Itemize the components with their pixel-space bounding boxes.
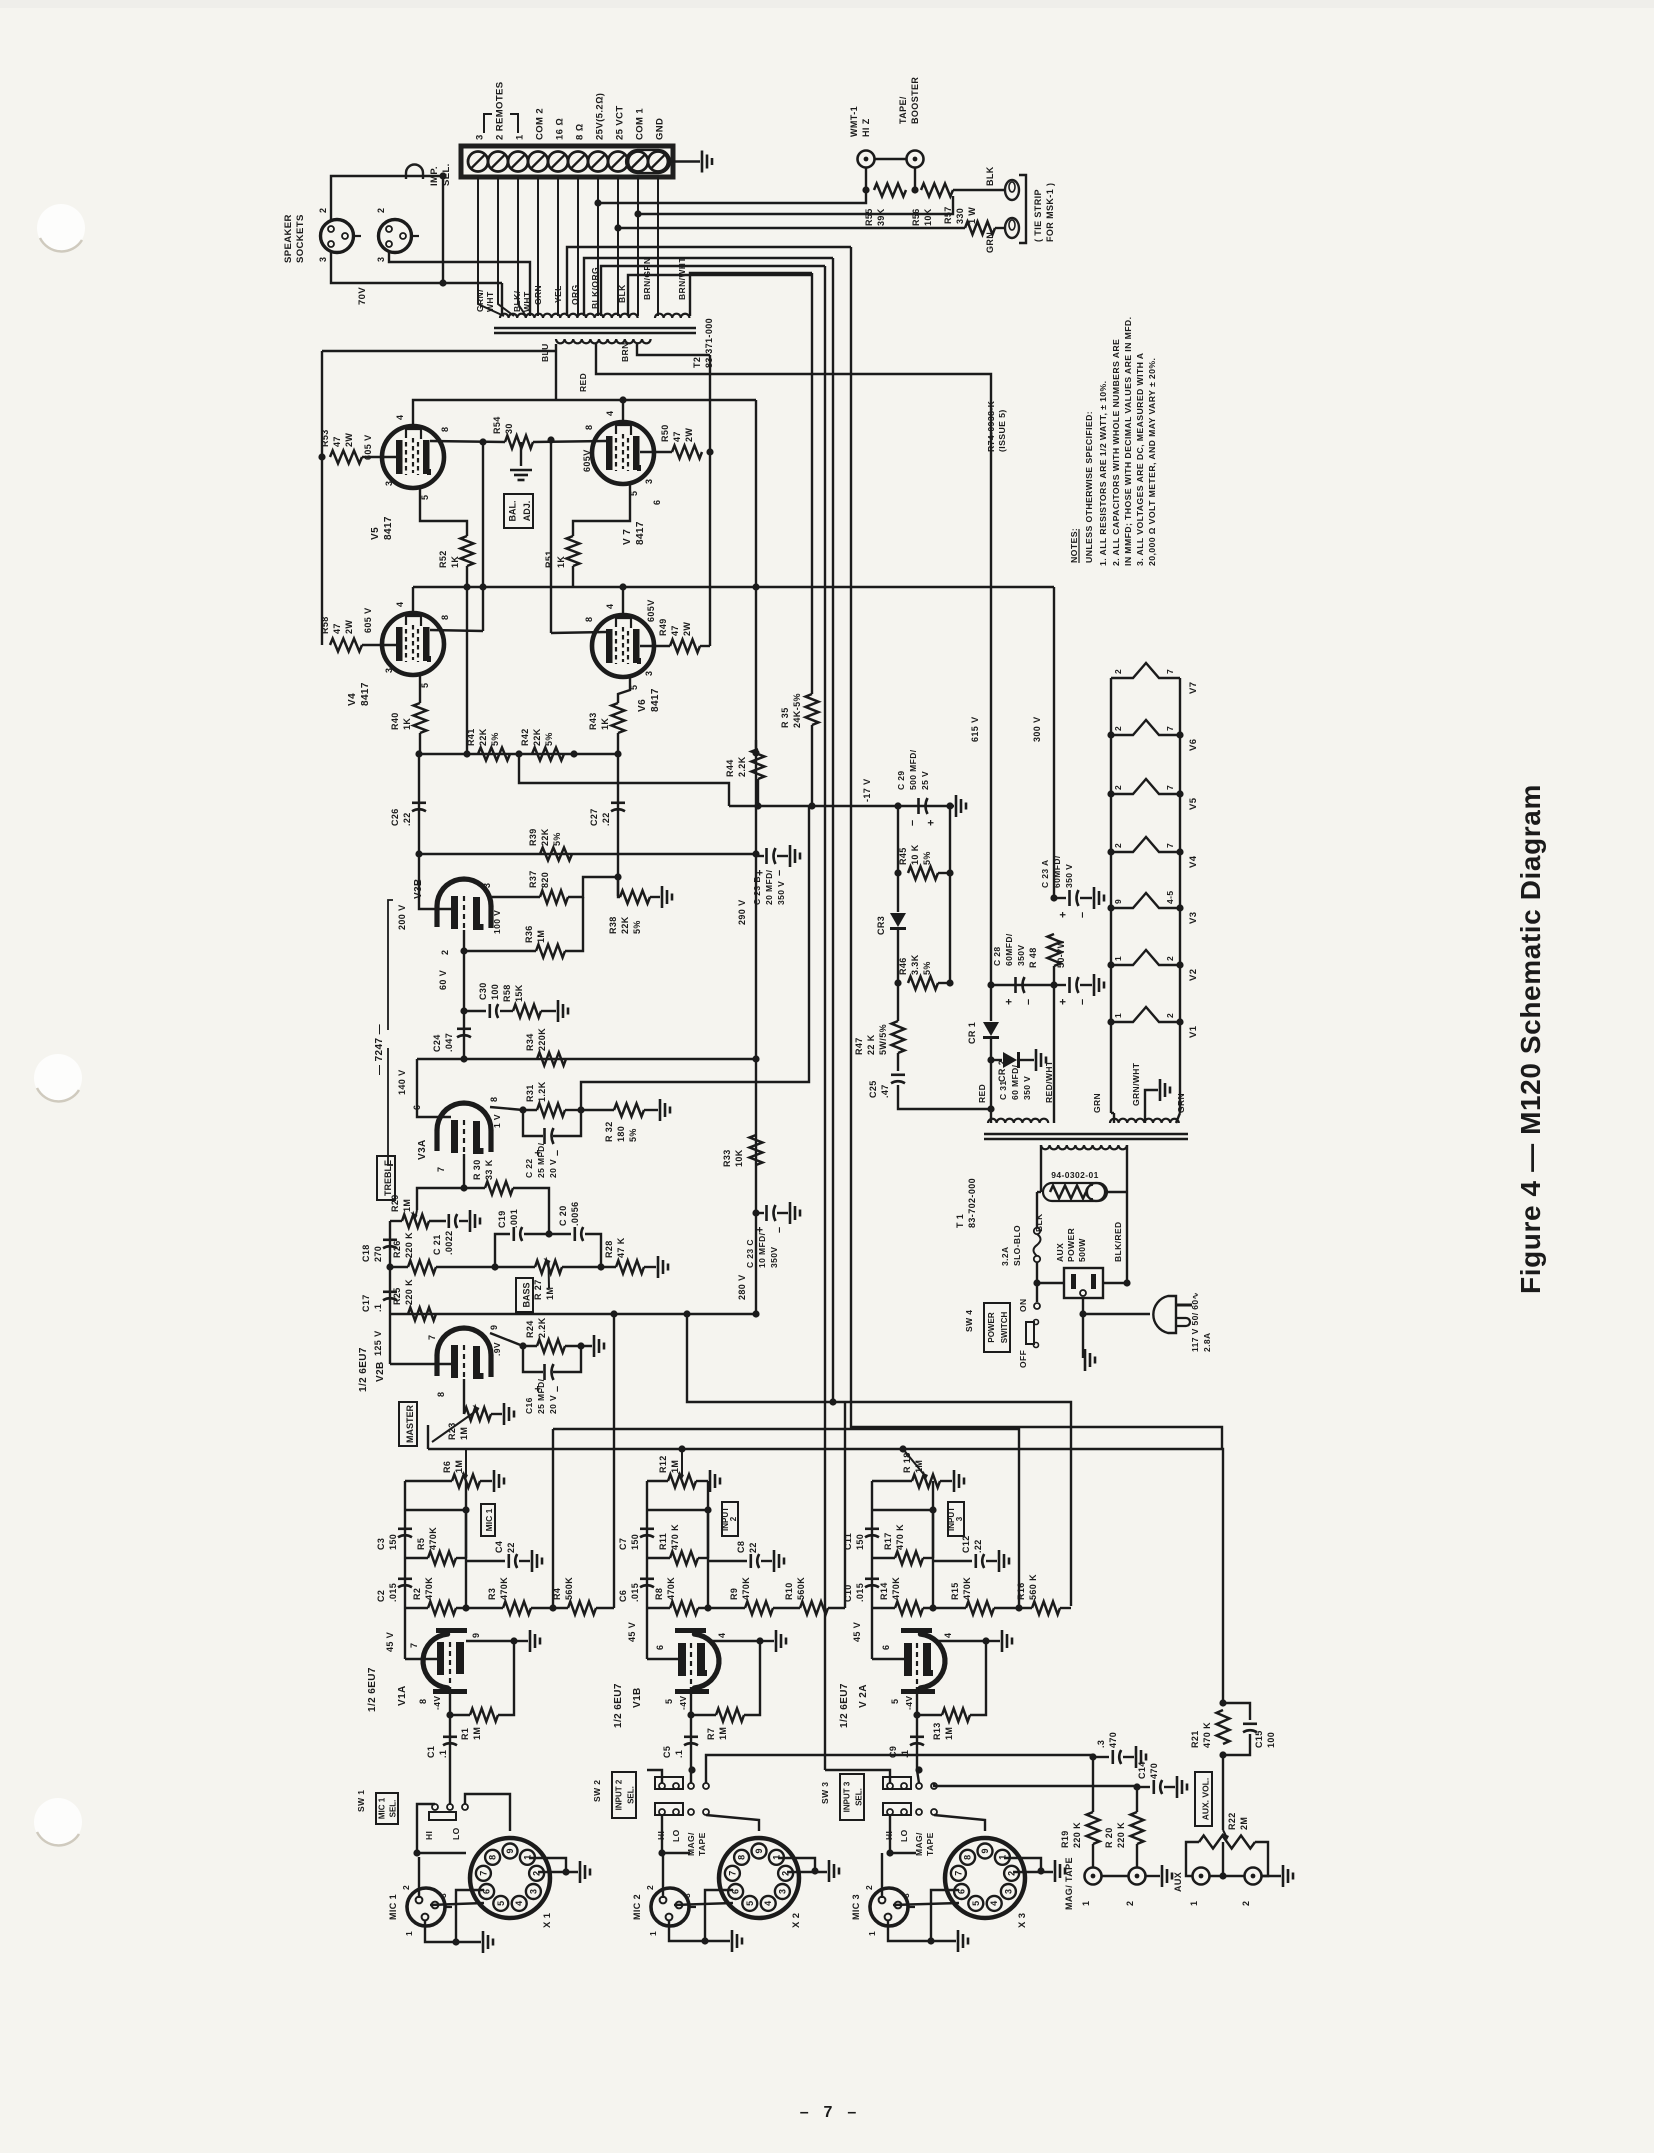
junction SW2/MIC2 <box>658 1849 665 1856</box>
svg-text:4: 4 <box>943 1633 953 1638</box>
svg-text:3: 3 <box>318 257 328 262</box>
label X1 <box>542 1912 553 1928</box>
svg-text:22: 22 <box>748 1542 758 1553</box>
svg-text:7: 7 <box>436 1167 446 1172</box>
svg-text:25 MFD/: 25 MFD/ <box>536 1378 546 1414</box>
svg-text:1M: 1M <box>472 1727 482 1740</box>
label ORG (T2) <box>570 284 580 305</box>
svg-text:.22: .22 <box>402 812 412 826</box>
svg-text:–: – <box>907 819 919 826</box>
svg-text:15K: 15K <box>514 984 524 1002</box>
svg-text:BOOSTER: BOOSTER <box>910 77 920 124</box>
right vertical x=710 (R50/R49) <box>709 355 711 646</box>
wire tap YEL to bundle <box>567 247 851 316</box>
wire MAG jack2 ground <box>1146 1875 1160 1877</box>
label C19 .001 <box>497 1209 519 1228</box>
resistor R42 22K 5% <box>532 748 564 761</box>
wire C23B stub <box>756 855 764 857</box>
label T2 83-371-000 <box>692 318 714 368</box>
label MIC 1 <box>388 1894 398 1920</box>
label BLU <box>540 343 550 362</box>
svg-text:1M: 1M <box>402 1199 412 1212</box>
svg-text:IN MMFD; THOSE WITH DECIMAL: IN MMFD; THOSE WITH DECIMAL VALUES ARE I… <box>1123 317 1133 566</box>
svg-text:140 V: 140 V <box>397 1069 407 1095</box>
ground symbol (V1B pin4) <box>776 1630 786 1652</box>
svg-text:1M: 1M <box>670 1460 680 1473</box>
svg-text:100 V: 100 V <box>492 910 502 934</box>
svg-text:615 V: 615 V <box>970 716 980 742</box>
wire V6 plate up <box>622 587 624 619</box>
wire CR2 stub <box>991 1059 1002 1061</box>
svg-text:RED/WHT: RED/WHT <box>1044 1060 1054 1103</box>
ch2 cathode rail y=1608 <box>647 1607 670 1609</box>
svg-text:ADJ.: ADJ. <box>522 501 532 522</box>
svg-text:R56: R56 <box>911 208 921 226</box>
svg-text:8: 8 <box>489 1097 499 1102</box>
wire V2A pin5 down <box>916 1687 918 1715</box>
wire MIC1 pin3 to X1 pin5 <box>430 1903 484 1905</box>
resistor R44 2.2K <box>752 749 765 779</box>
capacitor C23A 60MFD/350V <box>1058 890 1089 918</box>
junction rail1314 x614 <box>610 1310 617 1317</box>
svg-text:200 V: 200 V <box>397 904 407 930</box>
junction R35 bottom <box>808 802 815 809</box>
svg-text:10K: 10K <box>923 208 933 226</box>
junction rail1314 x687 <box>683 1310 690 1317</box>
wire R3-R4 <box>531 1607 568 1609</box>
wire R22 wiper down <box>1222 1842 1224 1876</box>
resistor R41 22K 5% <box>478 748 510 761</box>
wire MIC1 pin2 up <box>418 1857 420 1898</box>
svg-text:50-7W: 50-7W <box>1056 939 1066 968</box>
svg-text:-4V: -4V <box>432 1696 442 1710</box>
svg-text:X 2: X 2 <box>791 1913 802 1928</box>
svg-text:NOTES:: NOTES: <box>1069 528 1079 563</box>
resistor R45 10K 5% <box>908 867 938 880</box>
svg-text:GRN: GRN <box>985 232 995 253</box>
label BLK (tie strip) <box>985 166 995 186</box>
wire lamp left / fuse column <box>1037 1191 1041 1193</box>
label 45 V (V2A) <box>852 1622 862 1642</box>
svg-text:24K-5%: 24K-5% <box>792 693 802 728</box>
ground symbol (MAG jacks) <box>1162 1865 1172 1887</box>
svg-text:C26: C26 <box>390 808 400 826</box>
svg-text:7: 7 <box>953 1871 963 1876</box>
svg-text:180: 180 <box>616 1126 626 1142</box>
svg-text:C 28: C 28 <box>992 946 1002 966</box>
pilot lamp assembly 94-0302-01 <box>1043 1183 1107 1201</box>
transformer T1 heater secondary <box>1110 1119 1179 1123</box>
resistor R19 220K <box>1087 1812 1100 1844</box>
junction rail1449 ch3 <box>899 1445 906 1452</box>
resistor R21 470K <box>1217 1710 1230 1744</box>
svg-text:R9: R9 <box>729 1588 739 1600</box>
label LO (SW2) <box>671 1829 681 1842</box>
wire speaker socket1 pin3 down-right (70V) <box>331 252 502 283</box>
junction R46 right <box>946 979 953 986</box>
svg-text:1: 1 <box>404 1931 414 1936</box>
svg-text:BLK: BLK <box>985 166 995 186</box>
label R38 22K 5% <box>608 916 642 934</box>
svg-text:8: 8 <box>584 425 594 430</box>
label C27 .22 <box>589 808 611 826</box>
rail y=1429 <box>553 1429 1019 1606</box>
wire C9 to SW3 <box>917 1768 919 1783</box>
label C24 .047 <box>432 1033 454 1052</box>
wire tap BLK/ORG to bundle <box>601 266 825 316</box>
svg-text:.3: .3 <box>1096 1740 1106 1748</box>
label V3B <box>413 878 424 899</box>
label R35 24K-5% <box>780 693 802 728</box>
label 125 V <box>373 1330 383 1356</box>
svg-text:3: 3 <box>376 257 386 262</box>
label R5 470K <box>416 1527 438 1550</box>
wire R53 to V5 pin3 <box>362 456 397 458</box>
pin labels MIC3 <box>864 1885 911 1936</box>
svg-text:3: 3 <box>955 1516 964 1521</box>
label 615 V <box>970 716 980 742</box>
wire R19 to jack <box>1092 1844 1094 1867</box>
label V4 8417 <box>347 682 371 706</box>
label HI (SW1) <box>424 1831 434 1840</box>
mixer rail y=1314 <box>390 1313 756 1315</box>
wire speaker socket1 pin2 to IMP SEL <box>331 176 443 221</box>
label C26 .22 <box>390 808 412 826</box>
svg-text:V3A: V3A <box>417 1139 428 1160</box>
svg-text:V5: V5 <box>1188 797 1199 810</box>
label C7 150 <box>618 1534 640 1550</box>
resistor R39 22K 5% <box>540 848 572 861</box>
svg-text:COM 1: COM 1 <box>635 108 646 140</box>
resistor R30 33K <box>485 1182 513 1195</box>
svg-text:R42: R42 <box>520 728 530 746</box>
capacitor C29 500MFD/25V <box>907 798 938 826</box>
svg-text:C18: C18 <box>361 1244 371 1262</box>
svg-text:350 V: 350 V <box>1064 864 1074 888</box>
label R1 1M <box>460 1727 482 1740</box>
wire R6 to ground <box>480 1480 492 1482</box>
svg-text:C 23 A: C 23 A <box>1040 859 1050 888</box>
wire C30 to R58b <box>500 1010 513 1012</box>
label 290 V <box>737 899 747 925</box>
svg-text:4: 4 <box>605 604 615 609</box>
wire 70V to T2 GRN/WHT <box>501 283 503 316</box>
resistor R40 1K <box>414 703 427 733</box>
resistor R9 470K <box>745 1602 773 1615</box>
capacitor C23C 10MFD/350V <box>755 1205 786 1233</box>
svg-text:6: 6 <box>652 500 662 505</box>
transformer T2 extra winding BRN/GRN <box>655 314 689 318</box>
svg-text:60 MFD/: 60 MFD/ <box>1010 1064 1020 1100</box>
svg-text:R58: R58 <box>502 984 512 1002</box>
svg-text:2W: 2W <box>682 622 692 636</box>
signal line x=614 down <box>613 1314 615 1608</box>
wire R29 to C21 <box>429 1220 446 1222</box>
svg-text:22 K: 22 K <box>866 1034 876 1055</box>
speaker socket 2 <box>379 220 420 253</box>
svg-text:2: 2 <box>1125 1901 1135 1906</box>
svg-text:5%: 5% <box>552 832 562 846</box>
transformer T1 primary <box>1041 1145 1127 1149</box>
AUX POWER outlet <box>1064 1268 1103 1298</box>
label V1A <box>397 1685 408 1706</box>
label (TIE STRIP FOR MSK-1) <box>1033 183 1055 242</box>
capacitor C25 .47 <box>891 1075 905 1083</box>
svg-text:1 V: 1 V <box>492 1114 502 1128</box>
svg-text:1K: 1K <box>450 556 460 568</box>
label R7 1M <box>706 1727 728 1740</box>
svg-text:.1: .1 <box>900 1750 910 1758</box>
junction CR2 node <box>987 1056 994 1063</box>
label C5 .1 <box>662 1746 684 1758</box>
wire R45 right <box>938 872 950 874</box>
wire R20 to jack <box>1136 1844 1138 1867</box>
heater pin labels V2 <box>1113 956 1175 961</box>
junction C28/C31 <box>1050 981 1057 988</box>
svg-text:22K: 22K <box>532 728 542 746</box>
label R48 50-7W <box>1028 939 1066 968</box>
speaker socket 1 <box>321 220 362 253</box>
wire rail1059 to V3A grid <box>417 1059 451 1117</box>
ground symbol (C8) <box>774 1550 784 1572</box>
wire V3B plate (pin3) to R37 <box>492 896 540 898</box>
connector MIC 1 <box>407 1888 452 1926</box>
svg-text:7: 7 <box>727 1871 737 1876</box>
svg-text:R47: R47 <box>854 1037 864 1055</box>
svg-text:POWER: POWER <box>1066 1228 1076 1262</box>
resistor R53 47 2W <box>330 451 362 464</box>
wire R30 right down <box>513 1188 549 1234</box>
pin labels V4 <box>384 602 450 688</box>
label R15 470K <box>950 1577 972 1600</box>
svg-text:R58: R58 <box>320 616 330 634</box>
svg-text:R33: R33 <box>722 1149 732 1167</box>
svg-text:470 K: 470 K <box>670 1524 680 1550</box>
svg-text:22K: 22K <box>540 828 550 846</box>
label C12 .22 <box>961 1535 983 1553</box>
label 60 V <box>438 970 448 990</box>
wire TAPE jack stem <box>914 168 916 190</box>
svg-text:R41: R41 <box>466 728 476 746</box>
IMP SEL jack <box>406 165 423 180</box>
svg-text:7: 7 <box>1165 726 1175 731</box>
wire V2B pin9 to R24 <box>490 1333 537 1346</box>
svg-text:2: 2 <box>1241 1901 1251 1906</box>
label box INPUT 2 SEL <box>612 1772 636 1818</box>
label C11 150 <box>843 1533 865 1550</box>
capacitor C6 .015 <box>640 1579 654 1587</box>
svg-text:R51: R51 <box>544 550 554 568</box>
wire R13 left stub <box>917 1714 942 1716</box>
wire AUX jacks link <box>1210 1875 1244 1877</box>
ground symbol (V1A pin9) <box>530 1630 540 1652</box>
svg-text:–: – <box>1023 998 1035 1005</box>
svg-text:5: 5 <box>745 1901 755 1906</box>
label R19 220 K <box>1060 1822 1082 1848</box>
svg-text:470K: 470K <box>428 1527 438 1550</box>
wire MIC2 pin3 to X2 pin5 <box>674 1903 733 1905</box>
junction R11 top <box>704 1506 711 1513</box>
label 100V (V3B) <box>492 910 502 934</box>
pin labels MIC1 <box>401 1885 448 1936</box>
bias ladder right x=950 <box>949 806 951 983</box>
channel2 grid column x=647 <box>646 1481 648 1659</box>
svg-text:R8: R8 <box>654 1588 664 1600</box>
wire C12 ground stub <box>986 1560 997 1562</box>
svg-text:BAL.: BAL. <box>507 501 517 522</box>
label R41 22K 5% <box>466 728 500 746</box>
wire R7 right up <box>744 1641 760 1715</box>
label C1 .1 <box>426 1746 448 1758</box>
label C13 470 <box>1096 1732 1118 1748</box>
driver plate rail y=854 <box>419 853 756 855</box>
svg-text:1K: 1K <box>600 718 610 730</box>
label T1 83-702-000 <box>955 1178 977 1228</box>
wire SW1 LO to X1 pin9 <box>465 1794 510 1831</box>
junction SW1/MIC1 <box>413 1849 420 1856</box>
label R2 470K <box>412 1577 434 1600</box>
svg-text:COM 2: COM 2 <box>535 108 546 140</box>
svg-text:2: 2 <box>864 1885 874 1890</box>
wire X3 pin1/2 to ground <box>1004 1858 1041 1871</box>
ground symbol (MIC3) <box>958 1930 968 1952</box>
capacitor C20 .0056 <box>575 1227 583 1241</box>
socket X1 <box>470 1838 550 1918</box>
label SW 4 <box>964 1310 974 1332</box>
tie strip lug 1 <box>1005 180 1019 200</box>
pin labels V1A <box>409 1633 481 1704</box>
wire C21 ground stub <box>459 1220 468 1222</box>
label R43 1K <box>588 712 610 730</box>
label R46 3.3K 5% <box>898 954 932 975</box>
svg-text:C9: C9 <box>888 1746 898 1758</box>
ground symbol (AUX jacks) <box>1283 1865 1293 1887</box>
heater V5 <box>1111 779 1180 794</box>
wire outlet left feed <box>1037 1282 1064 1284</box>
junction -17V/R45 <box>894 802 901 809</box>
heater pin labels V1 <box>1113 1013 1175 1018</box>
ch2 coupling column x=691 <box>690 1715 692 1768</box>
ground symbol (R58b) <box>558 1000 568 1022</box>
svg-text:.015: .015 <box>388 1583 398 1602</box>
svg-text:.22: .22 <box>973 1539 983 1553</box>
wire R32 to ground <box>644 1109 658 1111</box>
junction V7 plate rail <box>619 396 626 403</box>
svg-text:WHT: WHT <box>522 291 532 312</box>
svg-text:V1B: V1B <box>632 1687 643 1708</box>
junction MIC2 gnd <box>701 1937 708 1944</box>
wire outlet right feed <box>1103 1282 1127 1284</box>
label 605V (V7) <box>582 449 592 472</box>
svg-text:C8: C8 <box>736 1541 746 1553</box>
vertical x=708 ch2 <box>707 1481 709 1608</box>
socket X3 <box>945 1838 1025 1918</box>
wire C23A ground <box>1080 897 1092 899</box>
svg-text:470K: 470K <box>666 1577 676 1600</box>
svg-text:1: 1 <box>1113 956 1123 961</box>
svg-text:1: 1 <box>515 134 526 140</box>
transformer T2 secondary winding (speaker) <box>500 314 638 318</box>
svg-text:47: 47 <box>332 436 342 447</box>
wire C13 node down R19 <box>1092 1757 1094 1812</box>
wire R58b to ground <box>541 1010 556 1012</box>
C22 loop <box>523 1110 543 1136</box>
wire R30 left <box>464 1187 485 1189</box>
svg-text:RED: RED <box>578 373 588 392</box>
label R54 30 <box>492 416 514 434</box>
svg-text:3: 3 <box>644 671 654 676</box>
vertical x=483 (V5/V4 screens) <box>482 442 484 631</box>
remotes bracket <box>484 114 492 133</box>
wire x=322 top to BLU lead <box>322 350 556 352</box>
junction R45 left <box>894 869 901 876</box>
svg-text:C24: C24 <box>432 1034 442 1052</box>
svg-text:3: 3 <box>901 1893 911 1898</box>
wire R9-R10 <box>773 1607 800 1609</box>
wire V3A plate pin8 to R31 <box>490 1107 537 1110</box>
wire R4 right <box>596 1607 614 1609</box>
heater V1 <box>1111 1007 1180 1022</box>
svg-text:2: 2 <box>376 208 386 213</box>
resistor R11 470K <box>670 1552 698 1565</box>
potentiometer R6 1M <box>452 1475 480 1488</box>
svg-text:5%: 5% <box>922 961 932 975</box>
svg-text:220 K: 220 K <box>404 1232 414 1258</box>
svg-text:R17: R17 <box>883 1532 893 1550</box>
wire MIC2 pin2 up <box>662 1853 664 1898</box>
vertical x=618 (C27 column) <box>617 754 619 896</box>
wire R38 to ground <box>650 896 660 898</box>
svg-text:R2: R2 <box>412 1588 422 1600</box>
svg-text:3.3K: 3.3K <box>910 954 920 975</box>
terminal screw COM 1 <box>628 152 648 172</box>
wire R5 wires <box>405 1557 428 1559</box>
wire C23B to ground <box>777 855 788 857</box>
jack WMT-1 HI Z <box>858 151 875 168</box>
wire R12 left to grid column <box>647 1480 668 1482</box>
resistor R26 220K <box>408 1261 436 1274</box>
svg-text:1: 1 <box>867 1931 877 1936</box>
resistor R25 220K <box>408 1308 436 1321</box>
svg-text:10 K: 10 K <box>910 844 920 865</box>
label -17V <box>862 778 872 802</box>
junction R8/R9 <box>704 1604 711 1611</box>
connector MIC 2 <box>651 1888 696 1926</box>
svg-text:R26: R26 <box>392 1240 402 1258</box>
svg-text:TREBLE: TREBLE <box>383 1160 393 1196</box>
svg-text:V6: V6 <box>637 699 648 712</box>
svg-text:GND: GND <box>655 118 666 140</box>
svg-text:6: 6 <box>881 1645 891 1650</box>
capacitor C18 270 <box>383 1240 397 1248</box>
svg-text:C15: C15 <box>1254 1730 1264 1748</box>
junction R31 left <box>519 1106 526 1113</box>
svg-text:— 7247 —: — 7247 — <box>374 1024 385 1075</box>
capacitor C2 .015 <box>398 1579 412 1587</box>
C20 branch <box>585 1234 601 1267</box>
svg-text:1/2 6EU7: 1/2 6EU7 <box>367 1667 378 1712</box>
wire V1B pin5 down <box>690 1687 692 1715</box>
svg-text:-17 V: -17 V <box>862 778 872 802</box>
junction rail754 R41R42 <box>515 750 522 757</box>
svg-text:SLO-BLO: SLO-BLO <box>1012 1225 1022 1266</box>
label R45 10K 5% <box>898 844 932 865</box>
label R58 15K <box>502 984 524 1002</box>
svg-text:60MFD/: 60MFD/ <box>1004 933 1014 966</box>
svg-text:BRN/GRN: BRN/GRN <box>642 258 652 300</box>
svg-text:470K: 470K <box>891 1577 901 1600</box>
svg-text:R45: R45 <box>898 847 908 865</box>
